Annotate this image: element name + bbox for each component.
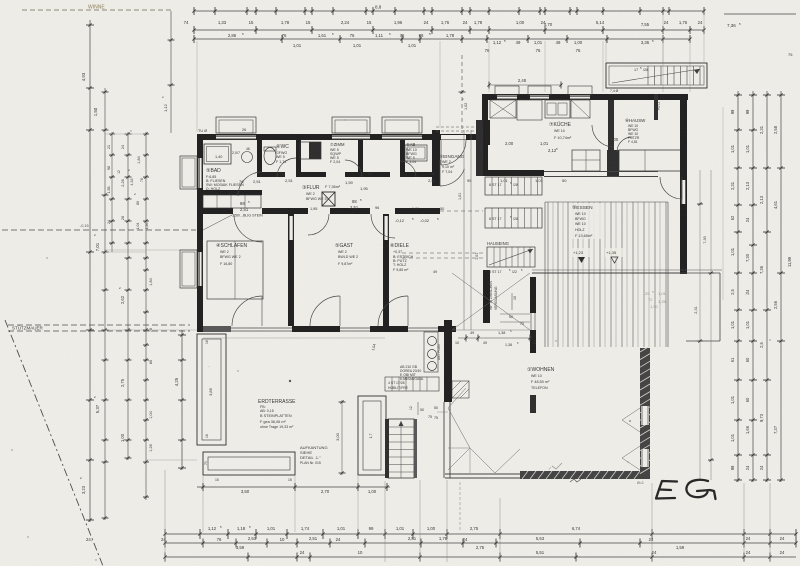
- hall X bracing: [452, 273, 530, 330]
- extension dashed from wohnen bottom: [459, 482, 461, 532]
- small wall stub left of wohnen: [530, 395, 536, 413]
- EG handwritten label: [656, 480, 716, 499]
- BAD door arc: [238, 172, 262, 196]
- kitchen block south wall double line: [544, 171, 658, 173]
- door gap right wall: [682, 180, 686, 204]
- stair side walls dark: [385, 419, 389, 478]
- cellar stair with diagonal: [487, 247, 535, 267]
- inner stair flight 1: [485, 177, 542, 195]
- window gap left wall (SCHLAFEN): [199, 252, 202, 286]
- bottom dimension line A (y534): [165, 533, 796, 535]
- right mid small tick marks: [722, 107, 724, 300]
- bottom chain ticks A: [164, 529, 166, 539]
- left chain x128: [127, 132, 129, 460]
- BAD bottom wall: [197, 190, 262, 195]
- horizontal dim line above kitchen: [489, 84, 561, 86]
- DIELE door arc: [371, 214, 395, 238]
- paper noise overlay: [0, 0, 1, 1]
- WOHNEN left wall lower: [443, 402, 445, 478]
- top dimension line 3: [194, 38, 690, 40]
- door arc kitchen/hall: [592, 125, 614, 147]
- kitchen block right wall: [680, 94, 687, 274]
- right vertical dimension chain 4 (x781): [780, 91, 782, 482]
- SCHLAFEN door diagonal: [203, 215, 232, 230]
- left vertical dimension chain A (x90 long): [89, 20, 91, 522]
- left block outer top wall: [197, 134, 483, 140]
- terrace top guide dashed: [203, 337, 385, 339]
- slope boundary dash-dot diagonal: [5, 320, 103, 566]
- scattered scan noise dots: [46, 257, 47, 258]
- cupboard row right room: [619, 150, 682, 171]
- AB door arc: [400, 161, 416, 177]
- FLUR top wall segments: [257, 172, 285, 177]
- corridor wall segments x483: [483, 120, 490, 145]
- window gap in top wall (room3): [382, 136, 422, 139]
- left vertical dimension chain B (x105): [104, 88, 106, 520]
- dims near WOHNEN top: [458, 337, 530, 339]
- top dimension line 1: [194, 10, 663, 12]
- scan speck: [289, 380, 291, 382]
- divider wall in right room: [654, 94, 658, 120]
- terrace left planter outer: [197, 334, 226, 445]
- room3 fixture: [405, 145, 427, 161]
- bottom chain ticks C: [164, 553, 166, 562]
- window sill rects outside left wall: [180, 156, 197, 189]
- overhang dashed line across: [532, 269, 722, 271]
- terrace left planter inner: [202, 339, 221, 440]
- WOHNEN right wall hatched: [640, 348, 650, 479]
- Stuetzmauer dashed retaining wall line: [8, 324, 190, 326]
- SCHLAFEN door arc: [234, 214, 262, 242]
- kitchen sink: [545, 100, 570, 118]
- dashed vertical entrance axis: [461, 55, 463, 133]
- entrance door gap in top wall: [441, 135, 466, 140]
- slat area side boundaries: [544, 202, 546, 347]
- chain x171 top connector: [170, 11, 172, 133]
- small stair 4 treads: [385, 377, 439, 391]
- kitchen block outer top wall: [482, 94, 688, 100]
- WOHNEN bottom wall left part: [445, 473, 520, 475]
- EINGANG door arc: [440, 169, 464, 186]
- diagonal bracing marks in WOHNEN floor: [448, 408, 470, 448]
- window gap in top wall (BAD): [216, 136, 256, 139]
- right vertical dimension chain 1 (x738): [737, 91, 739, 482]
- stair arrow: [612, 69, 700, 83]
- faint verticals to exterior stair: [662, 11, 664, 62]
- terrace door glazing lines: [231, 327, 292, 329]
- top dimension line 1 right part: [663, 10, 704, 12]
- terrace door arc 2: [310, 296, 340, 326]
- terrace bottom planter inner: [208, 457, 290, 470]
- label ESSEN: [570, 203, 604, 239]
- bathtub in BAD: [204, 144, 231, 164]
- left block outer left wall: [197, 134, 203, 330]
- kitchen block left wall (hatched): [482, 94, 488, 176]
- utility wall thick vertical: [444, 320, 452, 402]
- top right short line: [724, 13, 796, 15]
- left chain x146: [145, 132, 147, 500]
- window sill rects above top wall: [216, 117, 256, 133]
- basement stair walls: [388, 419, 414, 478]
- wall between hall and ESSEN: [530, 277, 536, 313]
- FLUR bottom wall segments: [197, 208, 233, 214]
- left chain x182: [181, 330, 183, 470]
- door gap in GAST/DIELE wall: [384, 216, 388, 240]
- wall GAST/DIELE vertical: [383, 214, 389, 326]
- right step-out open rectangle: [686, 272, 720, 274]
- kitchen island / cupboard: [572, 150, 600, 171]
- terrace bottom dim chain: [197, 486, 390, 488]
- inner right dimension verticals: [699, 170, 701, 480]
- terrace right planter inner: [363, 401, 381, 470]
- wardrobe band in SCHLAFEN: [203, 195, 261, 208]
- chimney shaft box with X: [322, 192, 335, 206]
- GAST door arc: [308, 214, 329, 235]
- terrace right planter outer: [358, 396, 386, 475]
- wall SCHLAFEN/GAST vertical: [288, 214, 294, 326]
- interior wall BAD/WC vertical: [257, 140, 262, 172]
- kitchen stove: [571, 100, 590, 118]
- WC toilet: [264, 148, 276, 165]
- top chain ticks row3: [193, 35, 195, 43]
- terrace door arc 3: [378, 296, 408, 326]
- terrace chain extension verticals: [202, 476, 204, 532]
- bottom dimension line C (y557): [165, 556, 796, 558]
- small dims near stair: [511, 293, 513, 310]
- bed rectangle in SCHLAFEN: [207, 241, 263, 299]
- window gap left wall (BAD): [199, 158, 202, 188]
- ZIMM door arc: [345, 160, 362, 177]
- upper dashed boundary line left: [2, 229, 196, 231]
- top chain extension verticals to kitchen: [488, 41, 490, 92]
- WC door arc: [277, 158, 296, 177]
- terrace door arc 1: [232, 296, 262, 326]
- level marker +1,23 filled: [572, 248, 590, 257]
- left chain crosslinks: [105, 133, 146, 135]
- bottom dimension line B (y543): [165, 542, 796, 544]
- door arc right room: [617, 137, 632, 152]
- left block right wall (entrance side): [432, 130, 440, 186]
- window gap in top wall (room2): [332, 136, 370, 139]
- terrace bottom planter outer: [203, 452, 295, 475]
- stair treads: [647, 66, 649, 85]
- door gap in SCHLAFEN/GAST wall: [289, 216, 293, 240]
- inner stair flight 2: [485, 208, 542, 228]
- shower dark box (DU): [309, 142, 321, 159]
- BAD washbasin circle: [242, 152, 253, 163]
- left chains horizontal extensions to building: [104, 249, 197, 251]
- kitchen cabinets row: [490, 100, 516, 118]
- basement stair treads: [388, 426, 414, 428]
- ESSEN top boundary: [545, 201, 668, 203]
- bottom chain ticks B: [164, 539, 166, 548]
- interior wall room3 right vertical: [400, 140, 405, 172]
- small dims below: [417, 402, 419, 415]
- squiggle marks below bottom wall: [570, 479, 581, 482]
- dashed corridor extension line: [440, 210, 483, 212]
- left chain x112 (short): [111, 132, 113, 252]
- WOHNEN bottom wall hatched part: [520, 471, 648, 479]
- corridor boundary thin lines: [463, 130, 465, 330]
- wall stub below kitchen: [607, 150, 619, 177]
- window break right wall: [641, 406, 649, 425]
- level marker +1,35 open: [605, 248, 623, 257]
- hatched small box near utility top: [452, 381, 469, 398]
- window gaps kitchen top wall: [497, 96, 517, 99]
- top dimension line 2: [194, 29, 704, 31]
- kitchen window sills above wall: [495, 86, 519, 95]
- right vertical dimension chain 2 (x753): [752, 91, 754, 482]
- door arc kitchen right wall (to ESSEN): [660, 177, 682, 199]
- bottom wall of left block segments (terrace doors): [197, 326, 203, 332]
- slat ceiling lines over ESSEN: [547, 202, 549, 347]
- kitchen interior wall vertical (right of kitchen): [608, 100, 614, 155]
- canopy dashed lines entrance walkway: [402, 252, 484, 254]
- property boundary dashed line top-left: [22, 9, 172, 11]
- right vertical dimension chain 3 (x767): [766, 91, 768, 482]
- vertical 3,00 dim right of planter: [341, 400, 343, 475]
- interior wall room2 right vertical: [358, 140, 363, 172]
- top chain ticks row1: [193, 7, 195, 15]
- top chain ticks row2: [193, 26, 195, 34]
- entrance door leaf+arc: [440, 140, 442, 165]
- window opening chevrons right wall: [622, 408, 640, 420]
- exterior stair block top right: [606, 63, 707, 88]
- kitchen block lower-left wall: [482, 170, 544, 176]
- interior wall WC right vertical: [296, 140, 301, 172]
- WC fixtures circles: [428, 337, 437, 346]
- canopy dashed above entrance: [436, 130, 484, 132]
- extension lines down: [164, 470, 166, 562]
- kitchen left inner wall column: [476, 120, 483, 176]
